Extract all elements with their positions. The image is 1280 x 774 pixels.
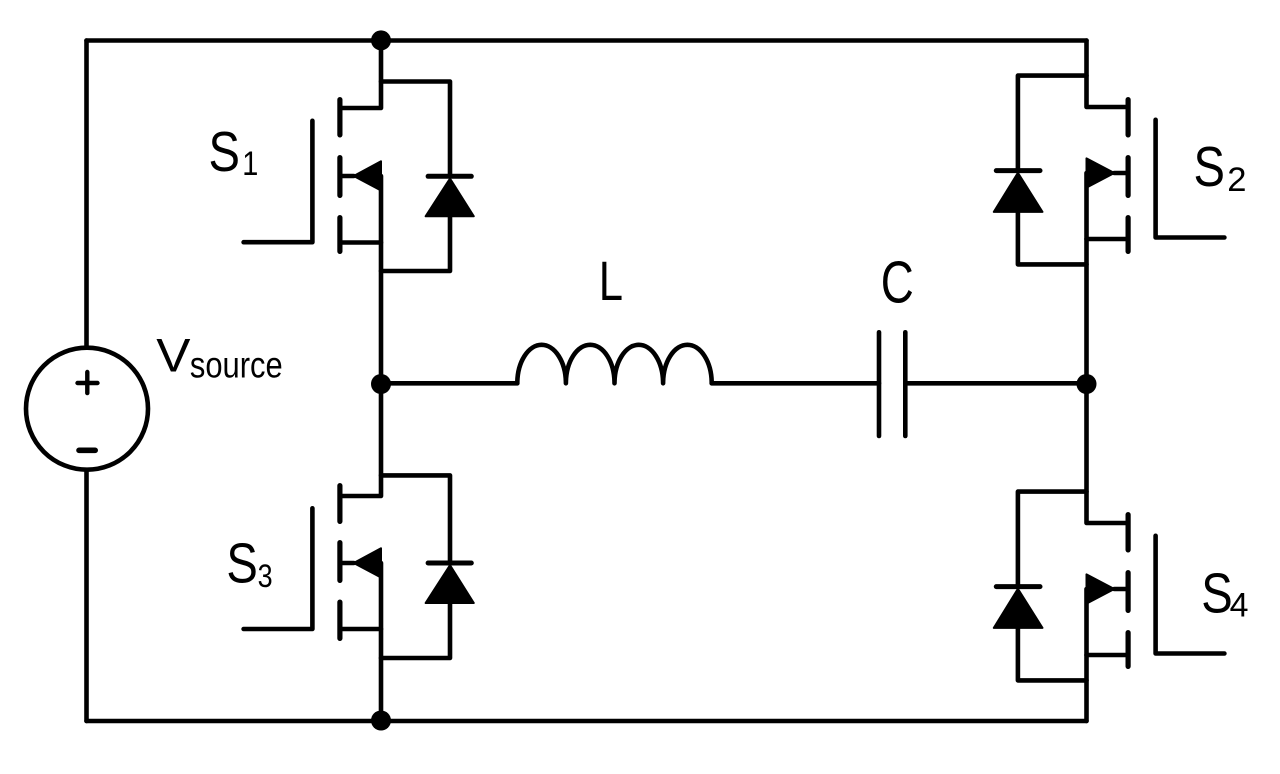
transistor S2 body arrow (1087, 158, 1115, 187)
diode D1 top branch wire (381, 82, 450, 177)
svg-text:C: C (881, 250, 914, 316)
diode D2 top branch wire (1018, 76, 1087, 171)
svg-text:S: S (226, 533, 257, 596)
transistor S3 source lead (340, 627, 381, 632)
transistor S1 drain wire (340, 41, 381, 109)
svg-text:L: L (599, 250, 623, 312)
transistor S3 body lead (340, 561, 354, 566)
diode D2 triangle (994, 173, 1043, 212)
wire mid between L and C (712, 381, 879, 386)
transistor S3 drain wire (340, 384, 381, 496)
wire mid left (381, 381, 517, 386)
diode D2 cathode bar (996, 168, 1040, 173)
capacitor C right plate (903, 332, 908, 436)
transistor S2 source lead (1087, 237, 1129, 242)
svg-text:source: source (190, 345, 283, 386)
diode D4 bottom branch wire (1018, 624, 1087, 680)
node bottom (371, 711, 391, 731)
diode D1 cathode bar (428, 174, 471, 179)
svg-text:1: 1 (242, 144, 258, 183)
wire left rail lower (84, 470, 89, 721)
transistor S4 channel dashes (1125, 515, 1130, 667)
wire left rail upper (84, 41, 89, 348)
transistor S2 drain wire (1087, 41, 1129, 108)
diode D3 top branch wire (381, 475, 450, 563)
svg-text:V: V (156, 329, 190, 382)
node mid right (1077, 374, 1097, 394)
transistor S1 channel dashes (337, 100, 342, 252)
label L (599, 250, 623, 312)
label S1 (209, 121, 240, 184)
diode D1 bottom branch wire (381, 213, 450, 271)
transistor S1 body arrow (354, 161, 381, 190)
transistor S4 source lead (1087, 653, 1129, 658)
node mid left (371, 374, 391, 394)
svg-text:S: S (1201, 563, 1232, 626)
transistor S4 body lead (1114, 587, 1128, 592)
wire mid right (905, 381, 1086, 386)
transistor S1 source wire down to node (379, 176, 384, 384)
transistor S1 source lead (340, 240, 381, 245)
transistor S3 body arrow (354, 548, 381, 577)
transistor S2 source wire down to node (1084, 173, 1089, 384)
label Vsource (156, 329, 190, 382)
label S2 (1194, 136, 1225, 199)
label S3 (226, 533, 257, 596)
wire top rail (87, 38, 1087, 43)
plus sign (78, 372, 98, 393)
svg-text:3: 3 (258, 559, 273, 595)
wire bottom rail (87, 719, 1087, 724)
node top (371, 30, 391, 50)
svg-text:2: 2 (1227, 161, 1246, 199)
diode D3 bottom branch wire (381, 600, 450, 658)
capacitor C left plate (877, 332, 882, 436)
diode D2 bottom branch wire (1018, 208, 1087, 264)
svg-text:S: S (209, 121, 240, 184)
minus sign (79, 447, 95, 453)
transistor S1 gate (244, 121, 313, 242)
svg-text:4: 4 (1230, 587, 1249, 625)
diode D4 top branch wire (1018, 492, 1087, 587)
voltage source Vsource circle (26, 348, 148, 470)
transistor S3 channel dashes (337, 486, 342, 639)
transistor S3 source wire down to node (379, 563, 384, 721)
transistor S4 drain wire (1087, 384, 1129, 523)
transistor S2 body lead (1114, 171, 1128, 176)
transistor S1 body lead (340, 174, 354, 179)
svg-text:S: S (1194, 136, 1225, 199)
inductor L (517, 345, 711, 384)
label C (881, 250, 914, 316)
transistor S4 gate (1156, 536, 1225, 654)
label S4 (1201, 563, 1232, 626)
diode D3 cathode bar (428, 561, 471, 566)
transistor S2 gate (1156, 120, 1225, 238)
diode D3 triangle (426, 565, 474, 603)
transistor S4 body arrow (1087, 574, 1115, 603)
transistor S3 gate (244, 508, 313, 629)
transistor S4 source wire down to rail (1084, 589, 1089, 721)
diode D4 cathode bar (996, 584, 1040, 589)
transistor S2 channel dashes (1125, 100, 1130, 252)
diode D4 triangle (994, 589, 1043, 628)
diode D1 triangle (426, 179, 474, 217)
